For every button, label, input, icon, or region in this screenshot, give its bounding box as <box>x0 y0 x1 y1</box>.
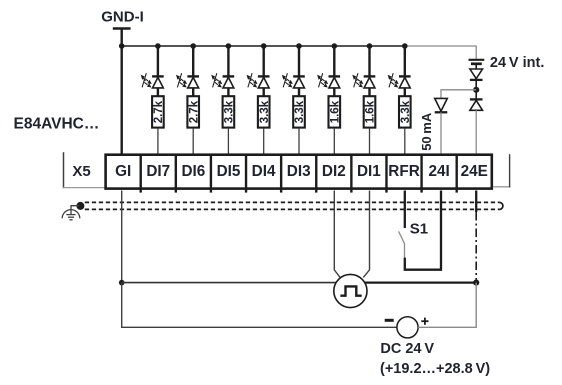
wire DI1 to pulse generator <box>363 191 369 278</box>
wire diode to terminal 24I (gray) <box>440 112 442 153</box>
shield dashed line lower <box>85 208 500 210</box>
wire top bus to 24V int. (gray) <box>405 46 476 59</box>
diode (opto LED) DI4, cathode bar <box>258 75 270 77</box>
resistor 2.7k (DI6) <box>187 96 199 127</box>
svg-text:DI6: DI6 <box>181 163 205 180</box>
diode (opto LED) RFR, triangle <box>399 77 410 88</box>
terminal strip X5 bracket <box>63 152 65 188</box>
svg-text:1.6k: 1.6k <box>365 100 377 123</box>
svg-text:3.3k: 3.3k <box>224 100 236 123</box>
svg-text:DI7: DI7 <box>146 163 170 180</box>
wire diode to resistor DI3 <box>298 88 300 96</box>
wire GI bus down to DC source <box>122 283 397 328</box>
value label 3.3k <box>400 100 412 123</box>
junction bus / DI4 branch <box>261 43 267 49</box>
svg-text:GND-I: GND-I <box>101 9 144 26</box>
switch S1 blade <box>399 231 405 257</box>
terminal bar GND-I <box>113 27 131 30</box>
terminal divider 24I/24E <box>455 154 457 193</box>
diode (opto LED) DI6, cathode bar <box>187 75 199 77</box>
diode top cathode bar <box>470 79 483 81</box>
junction bus / DI7 branch <box>155 43 161 49</box>
optocoupler LED arrows DI5 <box>211 73 222 87</box>
junction bus / DI3 branch <box>296 43 302 49</box>
value label 3.3k <box>294 100 306 123</box>
label 50 mA <box>419 112 434 151</box>
wire 24E below terminal (solid) <box>475 191 477 213</box>
svg-text:RFR: RFR <box>388 163 419 180</box>
wire S1 to terminal 24I <box>405 191 441 270</box>
diode (opto LED) DI5, cathode bar <box>223 75 235 77</box>
wire bus to optocoupler DI1 <box>368 46 370 76</box>
optocoupler LED arrows RFR <box>388 73 399 87</box>
diode (opto LED) DI1, triangle <box>364 77 375 88</box>
diode (opto LED) DI7, cathode bar <box>152 75 164 77</box>
wire bus to optocoupler DI5 <box>227 46 229 76</box>
junction bus / DI2 branch <box>332 43 338 49</box>
svg-text:GI: GI <box>115 163 131 180</box>
resistor 1.6k (DI1) <box>364 96 376 127</box>
diode (opto LED) DI3, triangle <box>294 77 305 88</box>
wire RFR to switch S1 <box>404 191 406 229</box>
junction bus / DI1 branch <box>367 43 373 49</box>
optocoupler LED arrows DI1 <box>352 73 363 87</box>
wire resistor to terminal DI1 <box>369 129 371 154</box>
wire diode to resistor DI1 <box>368 88 370 96</box>
svg-text:3.3k: 3.3k <box>259 100 271 123</box>
wire bus to optocoupler DI3 <box>298 46 300 76</box>
terminal divider GI/DI7 <box>140 154 142 193</box>
minus sign <box>385 319 394 322</box>
terminal divider DI7/DI6 <box>175 154 177 193</box>
wire resistor to terminal DI6 <box>192 129 194 154</box>
resistor 3.3k (DI4) <box>258 96 270 127</box>
diode top (24V int.), triangle <box>470 69 483 79</box>
wire bus to optocoupler DI4 <box>263 46 265 76</box>
battery 24V int. short plate <box>471 62 482 65</box>
wire DI2 to pulse generator <box>334 191 340 278</box>
value label 2.7k <box>188 100 200 123</box>
junction bus / DI6 branch <box>190 43 196 49</box>
resistor 2.7k (DI7) <box>152 96 164 127</box>
svg-text:DI5: DI5 <box>217 163 241 180</box>
wire diode to resistor DI2 <box>333 88 335 96</box>
diode (opto LED) DI6, triangle <box>188 77 199 88</box>
terminal divider DI3/DI2 <box>315 154 317 193</box>
value label 1.6k <box>365 100 377 123</box>
wire diode to resistor DI6 <box>192 88 194 96</box>
diode bottom triangle <box>470 100 483 110</box>
shield right end cap <box>499 202 503 209</box>
plus sign <box>421 320 428 322</box>
junction bus / RFR branch <box>402 43 408 49</box>
junction bottom bus / 24E <box>473 280 479 286</box>
wire bus to optocoupler RFR <box>404 46 406 76</box>
wire bus to optocoupler DI7 <box>157 46 159 76</box>
wire diode to terminal 24E (gray) <box>475 110 477 153</box>
wire resistor to terminal DI2 <box>333 129 335 154</box>
terminal strip right bracket <box>493 186 510 188</box>
resistor 3.3k (RFR) <box>399 96 411 127</box>
wire diode to resistor DI4 <box>263 88 265 96</box>
svg-text:S1: S1 <box>410 220 428 237</box>
pulse generator (encoder) circle <box>334 274 367 307</box>
svg-text:DI4: DI4 <box>252 163 276 180</box>
diode (opto LED) DI3, cathode bar <box>293 75 305 77</box>
junction bus / DI5 branch <box>226 43 232 49</box>
wire resistor to terminal RFR <box>404 129 406 154</box>
svg-text:DC 24 V: DC 24 V <box>380 341 434 357</box>
DC 24V source circle <box>397 317 418 338</box>
svg-text:50 mA: 50 mA <box>419 112 434 151</box>
svg-text:DI1: DI1 <box>357 163 381 180</box>
svg-text:3.3k: 3.3k <box>294 100 306 123</box>
wire 24V int. vertical (battery to diodes) <box>475 64 477 100</box>
diode (opto LED) DI2, cathode bar <box>329 75 341 77</box>
svg-text:24 V int.: 24 V int. <box>490 55 544 71</box>
resistor 3.3k (DI5) <box>223 96 235 127</box>
terminal divider RFR/24I <box>420 154 422 193</box>
wire bus to optocoupler DI2 <box>333 46 335 76</box>
wire junction to 24I branch (gray) <box>441 90 476 98</box>
battery 24V int. long plate <box>469 59 485 61</box>
terminal divider DI4/DI3 <box>280 154 282 193</box>
wire bottom bus right <box>365 281 477 283</box>
value label 2.7k <box>153 100 165 123</box>
svg-text:2.7k: 2.7k <box>153 100 165 123</box>
wire top GND bus (black part) <box>122 45 405 47</box>
wire diode to resistor DI7 <box>157 88 159 96</box>
junction GND-I / bus <box>119 43 125 49</box>
wire diode to resistor RFR <box>404 88 406 96</box>
terminal divider DI5/DI4 <box>245 154 247 193</box>
wire resistor to terminal DI7 <box>157 129 159 154</box>
diode (opto LED) DI7, triangle <box>153 77 164 88</box>
terminal strip frame <box>106 155 492 189</box>
optocoupler LED arrows DI6 <box>176 73 187 87</box>
svg-text:DI3: DI3 <box>287 163 311 180</box>
terminal divider DI2/DI1 <box>350 154 352 193</box>
optocoupler LED arrows DI3 <box>282 73 293 87</box>
svg-text:24I: 24I <box>429 163 450 180</box>
resistor 1.6k (DI2) <box>329 96 341 127</box>
diode (opto LED) RFR, cathode bar <box>399 75 411 77</box>
optocoupler LED arrows DI7 <box>141 73 152 87</box>
diode 24I branch, triangle <box>435 98 448 111</box>
wire 24E dash-dot to junction <box>475 212 477 283</box>
value label 1.6k <box>329 100 341 123</box>
diode 24I branch, cathode bar <box>435 111 448 113</box>
junction GI / bottom bus <box>119 280 125 286</box>
pulse symbol <box>340 286 361 295</box>
wire resistor to terminal DI3 <box>298 129 300 154</box>
wire resistor to terminal DI5 <box>227 129 229 154</box>
svg-text:DI2: DI2 <box>322 163 346 180</box>
optocoupler LED arrows DI2 <box>317 73 328 87</box>
PE / earth symbol <box>62 206 80 220</box>
svg-text:E84AVHC…: E84AVHC… <box>14 115 100 132</box>
diode (opto LED) DI5, triangle <box>223 77 234 88</box>
value label 3.3k <box>259 100 271 123</box>
wire GI down to bottom bus <box>121 191 123 283</box>
diode (opto LED) DI1, cathode bar <box>364 75 376 77</box>
svg-text:1.6k: 1.6k <box>329 100 341 123</box>
optocoupler LED arrows DI4 <box>247 73 258 87</box>
terminal divider DI6/DI5 <box>210 154 212 193</box>
diode bottom (24E), cathode bar <box>470 98 483 100</box>
shield PE junction dot <box>76 202 84 210</box>
value label 3.3k <box>224 100 236 123</box>
resistor 3.3k (DI3) <box>293 96 305 127</box>
diode (opto LED) DI2, triangle <box>329 77 340 88</box>
shield dashed line upper <box>85 201 500 203</box>
wire diode to resistor DI5 <box>227 88 229 96</box>
svg-text:(+19.2…+28.8 V): (+19.2…+28.8 V) <box>380 361 490 377</box>
wire bottom bus left <box>122 282 337 284</box>
wire bus to optocoupler DI6 <box>192 46 194 76</box>
svg-text:3.3k: 3.3k <box>400 100 412 123</box>
svg-text:X5: X5 <box>72 163 90 180</box>
wire GND-I vertical to terminal GI <box>120 29 122 154</box>
wire resistor to terminal DI4 <box>263 129 265 154</box>
svg-text:2.7k: 2.7k <box>188 100 200 123</box>
terminal divider DI1/RFR <box>385 154 387 193</box>
diode (opto LED) DI4, triangle <box>258 77 269 88</box>
wire DC source plus to 24E junction <box>418 283 476 328</box>
svg-text:24E: 24E <box>461 163 488 180</box>
junction 24V int. / 24I branch <box>473 87 479 93</box>
